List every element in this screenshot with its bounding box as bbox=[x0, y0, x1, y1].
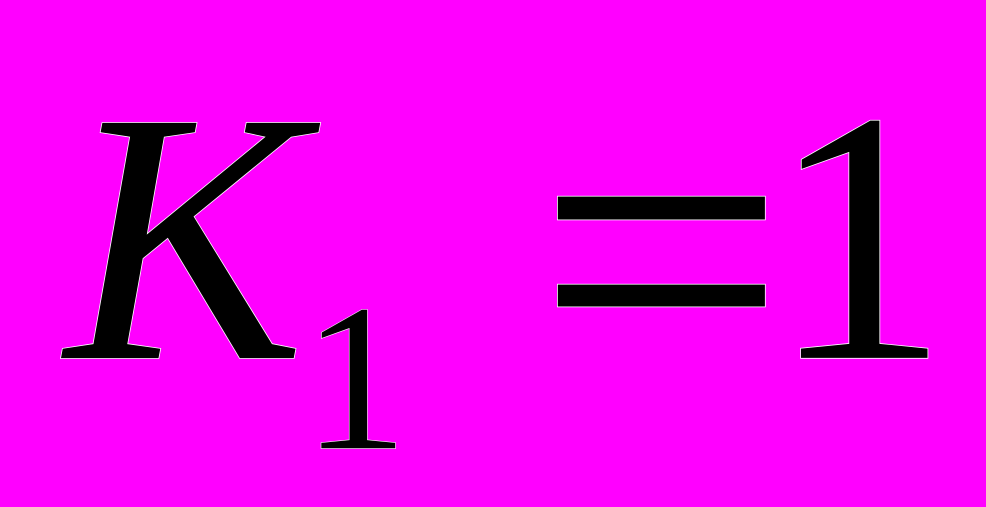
svg-text:1: 1 bbox=[303, 262, 408, 494]
equals sign: top bar bbox=[558, 197, 765, 220]
svg-text:1: 1 bbox=[769, 38, 949, 436]
equals sign: bottom bar bbox=[558, 285, 765, 307]
svg-text:K: K bbox=[60, 38, 324, 436]
